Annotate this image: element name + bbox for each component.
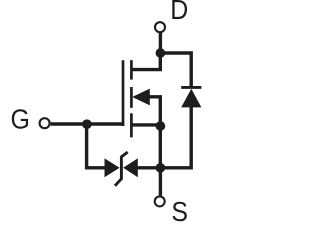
svg-text:D: D <box>170 0 188 25</box>
transistor Q1 channel body segment <box>130 87 133 108</box>
transistor Q1 body arrow <box>132 89 150 106</box>
svg-text:G: G <box>11 103 30 135</box>
wire body arrow branch to source node <box>148 97 160 126</box>
wire source lead <box>132 123 161 126</box>
wire drain lead <box>132 53 161 70</box>
junction dot drain node <box>156 48 166 58</box>
transistor Q1 channel drain segment <box>130 60 133 79</box>
svg-text:S: S <box>171 196 188 224</box>
junction dot source node <box>156 121 166 131</box>
terminal D circle <box>155 22 165 32</box>
transistor Q1 channel source segment <box>130 113 133 137</box>
TVS Z1 zener bar <box>115 152 128 186</box>
junction dot S-TVS node <box>156 163 166 173</box>
terminal S circle <box>155 196 165 206</box>
wire drain node to diode branch top <box>160 53 191 88</box>
diode D1 triangle <box>181 89 201 108</box>
wire G node down to TVS left <box>87 124 106 168</box>
transistor Q1 gate bar <box>122 60 125 126</box>
wire source node to S node <box>159 126 162 168</box>
TVS Z1 left triangle <box>105 158 120 177</box>
wire diode anode to S node corner <box>160 106 191 168</box>
terminal G circle <box>40 118 50 128</box>
junction dot gate node <box>82 119 92 129</box>
diode D1 cathode bar <box>181 86 201 89</box>
wire D terminal to drain node <box>159 33 162 53</box>
wire TVS right to S node <box>137 166 160 169</box>
wire S node down to S terminal <box>159 168 162 196</box>
TVS Z1 right triangle <box>123 158 138 177</box>
wire G terminal to gate bar <box>51 122 125 125</box>
